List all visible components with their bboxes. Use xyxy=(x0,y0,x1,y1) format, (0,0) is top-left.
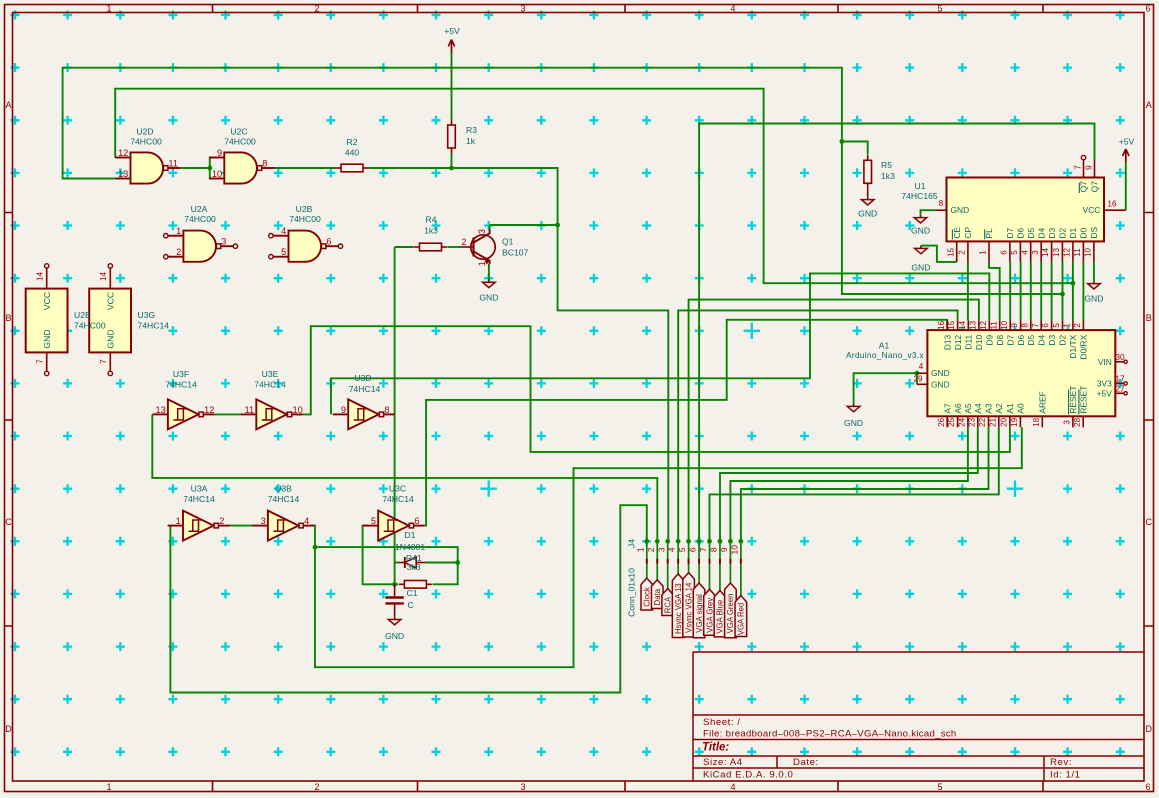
U1 pin 15 CE xyxy=(956,241,958,262)
svg-text:6: 6 xyxy=(1145,4,1150,14)
Arduino pin 18 AREF xyxy=(1041,416,1043,427)
svg-text:CE: CE xyxy=(952,226,962,238)
svg-text:D: D xyxy=(5,724,12,734)
junction D1 anode node xyxy=(455,560,460,565)
svg-text:VIN: VIN xyxy=(1098,357,1112,367)
svg-text:D3: D3 xyxy=(1047,227,1057,238)
svg-text:4: 4 xyxy=(304,516,309,526)
svg-text:B: B xyxy=(1146,313,1152,323)
wire Q1 emitter to GND xyxy=(488,264,490,280)
Arduino pin 25 A6 xyxy=(957,416,959,427)
svg-text:19: 19 xyxy=(1010,417,1019,426)
wire U1.13 D2 to Arduino D2 xyxy=(1062,262,1064,321)
J4 pin 1 xyxy=(646,541,648,578)
svg-text:BC107: BC107 xyxy=(502,248,528,258)
svg-text:11: 11 xyxy=(168,158,178,168)
svg-text:13: 13 xyxy=(118,169,128,179)
svg-text:U3E: U3E xyxy=(262,369,279,379)
svg-text:74HC00: 74HC00 xyxy=(289,214,321,224)
svg-text:A: A xyxy=(5,100,11,110)
junction R41/C1 node xyxy=(392,582,397,587)
Arduino pin 23 A4 xyxy=(977,416,979,427)
U1 pin 13 D2 xyxy=(1061,241,1063,262)
svg-text:Q7: Q7 xyxy=(1079,181,1089,193)
U1 pin 7 /Q7 xyxy=(1083,160,1085,178)
Arduino pin 22 A3 xyxy=(988,416,990,427)
svg-text:GND: GND xyxy=(931,379,950,389)
svg-text:9: 9 xyxy=(217,148,222,158)
svg-text:2: 2 xyxy=(314,4,319,14)
global label RCA xyxy=(662,589,674,616)
svg-text:74HC14: 74HC14 xyxy=(349,384,381,394)
svg-text:10: 10 xyxy=(212,169,222,179)
svg-text:13: 13 xyxy=(969,320,978,329)
J4 pin 5 xyxy=(688,541,690,572)
wire J4.6 VGA signal riser to U1.9 Q7 xyxy=(699,124,1094,542)
svg-text:4: 4 xyxy=(730,782,735,792)
svg-text:10: 10 xyxy=(1000,320,1009,329)
svg-text:1: 1 xyxy=(979,250,988,255)
svg-text:74HC00: 74HC00 xyxy=(184,214,216,224)
wire U2D output to U2C inputs xyxy=(180,167,210,169)
svg-text:A3: A3 xyxy=(984,403,994,414)
capacitor C1 xyxy=(394,584,396,596)
wire U1.16 VCC to +5V xyxy=(1125,162,1127,210)
J4 pin 2 xyxy=(656,541,658,579)
svg-text:18: 18 xyxy=(1032,417,1041,426)
wire U1.10 DS to GND xyxy=(1093,262,1095,281)
svg-text:6: 6 xyxy=(1041,323,1050,328)
U1 pin 8 GND xyxy=(936,209,946,211)
wire J4.4 Hsync riser to Arduino D12 xyxy=(678,310,957,541)
svg-text:16: 16 xyxy=(937,320,946,329)
svg-text:R4: R4 xyxy=(426,215,437,225)
wire U2C.8 output through R2 node to RCA riser (net C) xyxy=(274,167,336,169)
svg-text:74HC14: 74HC14 xyxy=(254,380,286,390)
Arduino pin 9 D6 xyxy=(1020,320,1022,330)
U1 pin 14 D3 xyxy=(1051,241,1053,262)
svg-text:AREF: AREF xyxy=(1038,391,1048,413)
shift register U1 74HC165 xyxy=(947,178,1105,242)
U1 pin 6 D7 xyxy=(1009,241,1011,262)
svg-text:B: B xyxy=(5,313,11,323)
svg-text:D0/RX: D0/RX xyxy=(1079,334,1089,359)
svg-text:D0: D0 xyxy=(1079,227,1089,238)
svg-text:GND: GND xyxy=(1084,294,1103,304)
svg-text:U3D: U3D xyxy=(354,373,371,383)
svg-text:3: 3 xyxy=(261,516,266,526)
svg-text:74HC00: 74HC00 xyxy=(74,321,106,331)
svg-text:4: 4 xyxy=(1020,250,1029,255)
svg-text:D8: D8 xyxy=(995,334,1005,345)
svg-text:8: 8 xyxy=(384,405,389,415)
U1 pin 11 D0 xyxy=(1082,241,1084,262)
svg-text:6: 6 xyxy=(1145,782,1150,792)
U1 pin 3 D4 xyxy=(1040,241,1042,262)
svg-text:2: 2 xyxy=(461,237,466,247)
svg-text:KiCad E.D.A. 9.0.0: KiCad E.D.A. 9.0.0 xyxy=(703,770,793,781)
svg-text:D4: D4 xyxy=(1036,227,1046,238)
svg-text:D: D xyxy=(1145,724,1152,734)
svg-text:Clock: Clock xyxy=(643,587,652,607)
wire R3 top to +5V xyxy=(451,52,453,121)
svg-text:D7: D7 xyxy=(1005,227,1015,238)
Arduino pin 20 A1 xyxy=(1009,416,1011,427)
wire Arduino GND pins to GND xyxy=(854,373,917,404)
resistor R2 xyxy=(336,167,341,169)
svg-text:1k3: 1k3 xyxy=(881,171,895,181)
svg-text:74HC00: 74HC00 xyxy=(130,137,162,147)
svg-text:8: 8 xyxy=(709,547,719,552)
wire U1.5 D6 to Arduino D6 xyxy=(1020,262,1022,321)
ground symbol at U1 pin 8 xyxy=(920,215,922,218)
svg-text:15: 15 xyxy=(946,248,955,257)
svg-text:14: 14 xyxy=(958,320,967,329)
nand gate U2C xyxy=(224,152,257,183)
svg-text:File: breadboard–008–PS2–RCA–V: File: breadboard–008–PS2–RCA–VGA–Nano.ki… xyxy=(703,729,957,740)
svg-text:D11: D11 xyxy=(964,334,974,349)
svg-text:6: 6 xyxy=(414,516,419,526)
svg-text:Id: 1/1: Id: 1/1 xyxy=(1050,770,1081,781)
U1 pin 12 D1 xyxy=(1072,241,1074,262)
svg-text:J4: J4 xyxy=(627,539,637,548)
Arduino pin 5 D2 xyxy=(1062,320,1064,330)
svg-text:Q7: Q7 xyxy=(1090,181,1100,193)
Arduino pin 2 D0/RX xyxy=(1082,320,1084,330)
resistor R4 xyxy=(414,246,419,248)
wire J4.9 VGA Green to Arduino A5 xyxy=(730,427,968,541)
J4 pin 6 xyxy=(698,541,700,583)
svg-text:U2E: U2E xyxy=(74,310,91,320)
svg-text:U3B: U3B xyxy=(275,484,292,494)
J4 pin 4 xyxy=(677,541,679,574)
svg-text:A2: A2 xyxy=(994,403,1004,414)
svg-text:440: 440 xyxy=(345,148,360,158)
nand gate U2A xyxy=(183,231,216,262)
svg-text:A1: A1 xyxy=(1005,403,1015,414)
svg-text:A6: A6 xyxy=(953,403,963,414)
svg-text:C: C xyxy=(408,600,414,610)
junction U2C inputs xyxy=(207,166,212,171)
svg-text:14: 14 xyxy=(99,272,108,281)
svg-text:1: 1 xyxy=(106,4,111,14)
J4 pin 10 xyxy=(740,541,742,595)
svg-text:12: 12 xyxy=(204,405,214,415)
svg-text:20: 20 xyxy=(1000,417,1009,426)
svg-text:10: 10 xyxy=(293,405,303,415)
inverter U3B xyxy=(268,511,299,541)
wire J4.5 Vsync riser to Arduino D10 xyxy=(689,300,979,542)
wire U3E.10 riser to A1 line xyxy=(296,326,1010,452)
svg-text:3: 3 xyxy=(520,4,525,14)
svg-text:R3: R3 xyxy=(466,125,477,135)
svg-text:VGA Blue: VGA Blue xyxy=(716,600,725,634)
svg-text:GND: GND xyxy=(844,418,863,428)
svg-text:Conn_01x10: Conn_01x10 xyxy=(627,568,637,617)
svg-text:+5V: +5V xyxy=(1119,137,1135,147)
svg-text:U3A: U3A xyxy=(191,484,208,494)
wire D1 cathode stub xyxy=(395,562,399,564)
wire R5 branch from net A xyxy=(842,142,868,155)
svg-text:1: 1 xyxy=(176,516,181,526)
svg-text:25: 25 xyxy=(947,417,956,426)
svg-text:10: 10 xyxy=(729,545,739,555)
svg-text:27: 27 xyxy=(1115,384,1125,394)
svg-text:74HC14: 74HC14 xyxy=(165,380,197,390)
global label Hsync VGA 13 xyxy=(672,574,684,638)
nand gate U2D xyxy=(131,152,164,183)
wire U3F.12 to U3E.11 xyxy=(214,413,241,415)
Arduino pin 13 D10 xyxy=(978,320,980,330)
svg-text:9: 9 xyxy=(719,547,729,552)
wire U3D.9 riser to Arduino D9 line xyxy=(331,273,989,414)
Arduino pin 4 GND xyxy=(917,372,928,374)
svg-text:Hsync VGA 13: Hsync VGA 13 xyxy=(674,583,683,634)
svg-text:D1: D1 xyxy=(404,530,415,540)
U1 pin 2 CP xyxy=(967,241,969,262)
junctions J4 pin tops xyxy=(644,539,649,544)
Arduino pin 1 D1/TX xyxy=(1072,320,1074,330)
svg-text:14: 14 xyxy=(1041,248,1050,257)
svg-text:30: 30 xyxy=(1115,352,1125,362)
inverter U3E xyxy=(256,399,287,429)
svg-text:+5V: +5V xyxy=(1097,388,1113,398)
svg-text:Sheet: /: Sheet: / xyxy=(703,717,740,728)
power symbol +5V near R3 xyxy=(451,41,453,53)
Arduino pin 7 D4 xyxy=(1040,320,1042,330)
wire U3A.1 riser from Clock loop xyxy=(170,505,646,692)
wire J4.7 VGA Grey to Arduino A2 xyxy=(710,427,999,541)
wire U2D.12 feedback (net B) xyxy=(115,89,1073,284)
transistor Q1 BC107 xyxy=(471,235,495,259)
global label VGA Blue xyxy=(714,591,726,637)
svg-text:VGA signal: VGA signal xyxy=(695,594,704,633)
junction Arduino GND pins xyxy=(915,371,920,376)
wire +5V rail from U2D.13 loop to U1/Arduino (net A) xyxy=(63,68,1063,294)
svg-text:VCC: VCC xyxy=(106,292,116,310)
Arduino pin 30 VIN xyxy=(1115,361,1123,363)
junction R5 tap xyxy=(840,139,845,144)
Arduino pin 8 D5 xyxy=(1030,320,1032,330)
svg-text:7: 7 xyxy=(698,547,708,552)
svg-text:11: 11 xyxy=(245,405,255,415)
svg-text:D1: D1 xyxy=(1068,227,1078,238)
svg-text:+5V: +5V xyxy=(444,26,460,36)
svg-text:VGA Grey: VGA Grey xyxy=(705,598,714,633)
global label VGA signal xyxy=(693,583,705,638)
svg-text:2: 2 xyxy=(958,250,967,255)
svg-text:2: 2 xyxy=(1073,323,1082,328)
svg-text:Rev:: Rev: xyxy=(1050,757,1072,768)
svg-text:Arduino_Nano_v3.x: Arduino_Nano_v3.x xyxy=(846,351,924,360)
svg-text:74HC14: 74HC14 xyxy=(138,321,170,331)
svg-text:C: C xyxy=(1145,517,1152,527)
svg-text:5: 5 xyxy=(677,547,687,552)
svg-text:RESET: RESET xyxy=(1078,386,1088,414)
svg-text:4: 4 xyxy=(667,547,677,552)
wire U1.11 D0 to Arduino D0/RX xyxy=(1082,262,1084,321)
svg-text:1: 1 xyxy=(106,782,111,792)
svg-text:U1: U1 xyxy=(915,181,926,191)
svg-text:28: 28 xyxy=(1073,417,1082,426)
svg-text:GND: GND xyxy=(479,293,498,303)
svg-text:5: 5 xyxy=(371,516,376,526)
wire R41 left / C1 node to U3C.5 xyxy=(395,583,399,585)
svg-text:A: A xyxy=(1146,100,1152,110)
svg-text:3: 3 xyxy=(477,229,487,234)
ground symbol at Q1 emitter xyxy=(488,279,490,282)
svg-text:4: 4 xyxy=(919,362,924,371)
Arduino pin 16 D13 xyxy=(946,320,948,330)
wire R4 to Q1 base xyxy=(395,246,414,248)
svg-text:3: 3 xyxy=(1063,420,1072,425)
svg-text:VGA Green: VGA Green xyxy=(726,593,735,633)
wire J4.10 VGA Red to Arduino A3 xyxy=(741,427,989,541)
svg-text:7: 7 xyxy=(99,359,108,364)
svg-text:5: 5 xyxy=(937,4,942,14)
svg-text:D1/TX: D1/TX xyxy=(1068,334,1078,358)
svg-text:29: 29 xyxy=(914,375,923,384)
ground symbol at Arduino GND xyxy=(853,404,855,407)
svg-text:U2D: U2D xyxy=(136,127,153,137)
Arduino pin 12 D9 xyxy=(988,320,990,330)
wire U1.1 PL to Arduino D8 xyxy=(989,262,1000,321)
svg-text:13: 13 xyxy=(155,405,165,415)
wire R3 bottom junction xyxy=(451,153,453,168)
svg-text:D9: D9 xyxy=(985,334,995,345)
global label VGA Grey xyxy=(704,589,716,635)
Arduino pin 6 D3 xyxy=(1051,320,1053,330)
global label Data xyxy=(651,580,663,609)
U1 pin 4 D5 xyxy=(1030,241,1032,262)
wire U1.4 D5 to Arduino D5 xyxy=(1030,262,1032,321)
svg-text:GND: GND xyxy=(931,368,950,378)
svg-text:74HC14: 74HC14 xyxy=(382,494,414,504)
junction Q1 collector tap xyxy=(555,223,560,228)
svg-text:A5: A5 xyxy=(963,403,973,414)
svg-text:9: 9 xyxy=(1010,323,1019,328)
svg-text:12: 12 xyxy=(118,148,128,158)
svg-text:2: 2 xyxy=(314,782,319,792)
svg-text:8: 8 xyxy=(1020,323,1029,328)
Arduino pin 14 D11 xyxy=(967,320,969,330)
svg-text:16: 16 xyxy=(1108,200,1117,209)
wire U1.3 D4 to Arduino D4 xyxy=(1040,262,1042,321)
wire U1.15 CE to GND xyxy=(921,246,957,262)
svg-text:9: 9 xyxy=(1083,165,1093,170)
svg-text:VGA Red: VGA Red xyxy=(737,603,746,636)
svg-text:U2B: U2B xyxy=(296,204,313,214)
svg-text:VCC: VCC xyxy=(42,292,52,310)
wire U1.12 D1 to Arduino D1/TX xyxy=(1072,262,1074,321)
svg-text:D2: D2 xyxy=(1058,334,1068,345)
svg-text:3: 3 xyxy=(221,237,226,247)
wire J4.8 VGA Blue to Arduino A4 xyxy=(720,427,978,541)
inverter U3F xyxy=(168,399,199,429)
wire U1.8 GND pin to GND xyxy=(921,210,937,215)
svg-text:23: 23 xyxy=(967,417,976,426)
inverter U3C xyxy=(378,511,409,541)
svg-text:15: 15 xyxy=(947,320,956,329)
wire U3D.8 riser R4 to D1 cathode node xyxy=(394,247,396,584)
svg-text:1: 1 xyxy=(635,547,645,552)
junction net B at Arduino D1 riser xyxy=(1071,281,1076,286)
svg-text:D3: D3 xyxy=(1047,334,1057,345)
ground symbol below C1 xyxy=(394,617,396,620)
svg-text:7: 7 xyxy=(35,359,44,364)
svg-text:A7: A7 xyxy=(942,403,952,414)
svg-text:DS: DS xyxy=(1089,226,1099,238)
svg-text:D13: D13 xyxy=(942,334,952,350)
power unit U2E (VCC/GND box) xyxy=(26,289,68,353)
nand gate U2B xyxy=(289,231,322,262)
Arduino pin 29 GND xyxy=(917,383,928,385)
svg-text:Title:: Title: xyxy=(702,742,729,754)
U1 pin 9 Q7 xyxy=(1094,160,1096,178)
svg-text:GND: GND xyxy=(951,205,970,215)
J4 pin 7 xyxy=(709,541,711,589)
svg-text:R5: R5 xyxy=(881,160,892,170)
Arduino pin 24 A5 xyxy=(967,416,969,427)
U1 pin 16 VCC xyxy=(1104,209,1126,211)
svg-text:6: 6 xyxy=(688,547,698,552)
svg-text:GND: GND xyxy=(106,329,116,348)
svg-text:3: 3 xyxy=(1031,250,1040,255)
svg-text:12: 12 xyxy=(979,320,988,329)
svg-text:RESET: RESET xyxy=(1068,386,1078,414)
svg-text:RCA: RCA xyxy=(664,596,673,613)
svg-text:1: 1 xyxy=(477,261,487,266)
diode D1 1N4001 xyxy=(404,557,406,568)
module A1 Arduino Nano v3 xyxy=(927,330,1115,416)
svg-text:22: 22 xyxy=(978,417,987,426)
svg-text:7: 7 xyxy=(1073,165,1083,170)
svg-text:U2C: U2C xyxy=(230,127,247,137)
svg-text:Vsync VGA 14: Vsync VGA 14 xyxy=(684,582,693,633)
global label Vsync VGA 14 xyxy=(683,573,695,637)
svg-text:D7: D7 xyxy=(1005,334,1015,345)
wire U3A.2 to U3B.3 xyxy=(228,525,254,527)
title block xyxy=(693,652,1144,781)
Arduino pin 19 A0 xyxy=(1019,416,1021,427)
svg-text:D4: D4 xyxy=(1036,334,1046,345)
U1 pin 5 D6 xyxy=(1019,241,1021,262)
svg-text:GND: GND xyxy=(911,262,930,272)
svg-text:2: 2 xyxy=(176,247,181,257)
power unit U3G (VCC/GND box) xyxy=(89,289,131,353)
resistor R3 xyxy=(451,120,453,125)
svg-text:U3F: U3F xyxy=(173,369,189,379)
svg-text:5: 5 xyxy=(937,782,942,792)
wire D1/R41 right node xyxy=(315,547,458,584)
J4 pin 8 xyxy=(719,541,721,590)
svg-text:1: 1 xyxy=(176,226,181,236)
svg-text:D10: D10 xyxy=(974,334,984,350)
svg-text:8: 8 xyxy=(262,158,267,168)
svg-text:GND: GND xyxy=(911,226,930,236)
svg-text:74HC165: 74HC165 xyxy=(901,191,938,201)
wire U3F.13 to Data line to J4.2 xyxy=(152,414,657,541)
svg-text:Data: Data xyxy=(653,588,662,605)
svg-text:8: 8 xyxy=(939,199,944,208)
svg-text:CP: CP xyxy=(963,226,973,238)
Arduino pin 11 D8 xyxy=(999,320,1001,330)
Arduino pin 17 3V3 xyxy=(1115,382,1123,384)
svg-text:6: 6 xyxy=(326,237,331,247)
svg-text:5: 5 xyxy=(1010,250,1019,255)
svg-text:A1: A1 xyxy=(879,341,890,351)
svg-text:2: 2 xyxy=(219,516,224,526)
